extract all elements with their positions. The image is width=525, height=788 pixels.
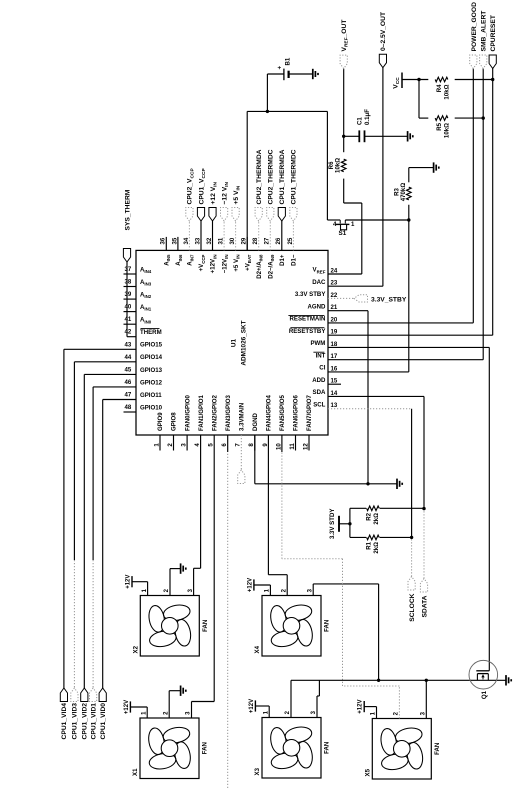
svg-text:10kΩ: 10kΩ: [443, 84, 450, 99]
svg-text:13: 13: [331, 402, 338, 409]
svg-text:R1: R1: [366, 541, 373, 549]
svg-text:SCL: SCL: [313, 401, 325, 408]
svg-text:FAN4/GPIO4: FAN4/GPIO4: [266, 394, 273, 431]
svg-text:22: 22: [331, 292, 338, 299]
svg-text:ADM1026_SKT: ADM1026_SKT: [241, 320, 248, 365]
svg-text:0–2.5V_OUT: 0–2.5V_OUT: [380, 11, 387, 51]
svg-text:INT: INT: [316, 352, 326, 359]
svg-text:10: 10: [275, 443, 282, 450]
svg-text:4: 4: [194, 443, 201, 447]
svg-text:CI: CI: [319, 365, 325, 372]
svg-text:15: 15: [331, 378, 338, 385]
svg-text:D1+: D1+: [279, 254, 286, 266]
svg-text:47: 47: [125, 392, 132, 399]
svg-text:FAN: FAN: [434, 743, 441, 755]
svg-text:FAN7/GPIO7: FAN7/GPIO7: [306, 394, 313, 431]
svg-text:11: 11: [289, 443, 296, 450]
svg-text:SDA: SDA: [313, 389, 326, 396]
svg-text:3.3VMAIN: 3.3VMAIN: [239, 403, 246, 431]
svg-text:SMB_ALERT: SMB_ALERT: [481, 10, 488, 52]
svg-text:R4: R4: [436, 84, 443, 92]
svg-text:GPIO14: GPIO14: [140, 354, 163, 361]
svg-text:POWER_GOOD: POWER_GOOD: [471, 2, 478, 52]
svg-text:27: 27: [264, 237, 271, 244]
svg-text:3.3V_STBY: 3.3V_STBY: [371, 296, 407, 303]
svg-text:30: 30: [229, 237, 236, 244]
svg-text:2kΩ: 2kΩ: [373, 542, 380, 554]
svg-text:CPU1_THERMDA: CPU1_THERMDA: [279, 149, 286, 204]
svg-text:X5: X5: [364, 768, 371, 776]
svg-text:S1: S1: [339, 230, 347, 237]
svg-text:9: 9: [262, 443, 269, 447]
svg-text:+: +: [277, 66, 284, 70]
svg-text:43: 43: [125, 341, 132, 348]
svg-text:GPIO15: GPIO15: [140, 342, 163, 349]
svg-text:X2: X2: [132, 645, 139, 653]
svg-text:FAN: FAN: [324, 620, 331, 632]
svg-text:C1: C1: [357, 117, 364, 125]
svg-text:D1−: D1−: [291, 254, 298, 266]
svg-text:U1: U1: [231, 338, 238, 347]
svg-text:Q1: Q1: [481, 690, 488, 699]
svg-text:2kΩ: 2kΩ: [373, 513, 380, 525]
svg-text:31: 31: [218, 237, 225, 244]
svg-text:+12V: +12V: [125, 575, 131, 589]
svg-text:CPU2_THERMDC: CPU2_THERMDC: [268, 149, 275, 204]
svg-text:THERM: THERM: [140, 329, 162, 336]
svg-text:+12V: +12V: [247, 578, 253, 592]
svg-text:42: 42: [125, 329, 132, 336]
svg-text:+12V: +12V: [124, 700, 130, 714]
svg-text:FAN3/GPIO3: FAN3/GPIO3: [225, 394, 232, 431]
svg-text:FAN2/GPIO2: FAN2/GPIO2: [211, 394, 218, 431]
svg-text:6: 6: [221, 443, 228, 447]
svg-text:39: 39: [125, 291, 132, 298]
svg-text:10kΩ: 10kΩ: [443, 123, 450, 138]
svg-text:FAN5/GPIO5: FAN5/GPIO5: [279, 394, 286, 431]
svg-text:SDATA: SDATA: [421, 595, 428, 617]
svg-text:28: 28: [252, 237, 259, 244]
svg-text:CPU1_VID3: CPU1_VID3: [72, 703, 79, 740]
svg-text:GPIO11: GPIO11: [140, 392, 162, 399]
svg-text:46: 46: [125, 379, 132, 386]
svg-text:CPU1_THERMDC: CPU1_THERMDC: [291, 149, 298, 204]
svg-text:0.1μF: 0.1μF: [364, 109, 371, 125]
svg-text:AGND: AGND: [307, 303, 326, 310]
svg-text:GPIO10: GPIO10: [140, 404, 163, 411]
svg-text:48: 48: [125, 404, 132, 411]
svg-text:8: 8: [248, 443, 255, 447]
svg-text:GPIO13: GPIO13: [140, 367, 163, 374]
svg-text:FAN6/GPIO6: FAN6/GPIO6: [293, 394, 300, 431]
svg-text:CPU2_THERMDA: CPU2_THERMDA: [256, 149, 263, 204]
svg-text:GPIO9: GPIO9: [157, 412, 164, 431]
svg-text:RESETMAIN: RESETMAIN: [290, 316, 326, 323]
svg-text:DAC: DAC: [312, 279, 326, 286]
svg-text:29: 29: [241, 237, 248, 244]
svg-text:40: 40: [125, 304, 132, 311]
svg-text:41: 41: [125, 316, 132, 323]
svg-text:FAN: FAN: [202, 742, 209, 754]
svg-text:R5: R5: [436, 122, 443, 130]
svg-text:34: 34: [183, 237, 190, 244]
svg-text:33: 33: [194, 237, 201, 244]
svg-text:CPURESET: CPURESET: [490, 14, 497, 51]
svg-text:5: 5: [208, 443, 215, 447]
svg-text:+12V: +12V: [358, 700, 364, 714]
svg-text:35: 35: [171, 237, 178, 244]
svg-text:26: 26: [275, 237, 282, 244]
svg-text:2: 2: [167, 443, 174, 447]
svg-text:36: 36: [160, 237, 167, 244]
svg-text:37: 37: [125, 266, 132, 273]
svg-text:CPU1_VID4: CPU1_VID4: [61, 703, 68, 740]
svg-text:25: 25: [287, 237, 294, 244]
svg-text:RESETSTBY: RESETSTBY: [289, 328, 326, 335]
svg-text:X4: X4: [254, 645, 261, 653]
svg-text:R2: R2: [366, 512, 373, 520]
svg-text:7: 7: [235, 443, 242, 447]
svg-text:12: 12: [302, 443, 309, 450]
svg-text:CPU1_VID1: CPU1_VID1: [90, 703, 97, 740]
svg-text:SYS_THERM: SYS_THERM: [124, 189, 131, 230]
svg-text:FAN: FAN: [202, 620, 209, 632]
svg-text:FAN0/GPIO0: FAN0/GPIO0: [184, 394, 191, 431]
svg-text:3: 3: [181, 443, 188, 447]
svg-text:470kΩ: 470kΩ: [400, 183, 407, 202]
svg-text:GPIO8: GPIO8: [171, 412, 178, 431]
svg-text:ADD: ADD: [312, 377, 326, 384]
svg-text:B1: B1: [285, 57, 292, 65]
svg-text:X3: X3: [254, 767, 261, 775]
svg-text:45: 45: [125, 366, 132, 373]
svg-text:3.3V STBY: 3.3V STBY: [295, 291, 325, 298]
svg-text:+12V: +12V: [249, 699, 255, 713]
svg-text:X1: X1: [132, 768, 139, 776]
svg-text:1: 1: [153, 443, 160, 447]
svg-text:38: 38: [125, 279, 132, 286]
svg-text:PWM: PWM: [310, 340, 325, 347]
svg-text:3.3V STDY: 3.3V STDY: [329, 509, 336, 539]
svg-text:GPIO12: GPIO12: [140, 379, 163, 386]
svg-text:44: 44: [125, 354, 132, 361]
svg-text:SCLOCK: SCLOCK: [409, 593, 416, 621]
svg-text:CPU1_VID0: CPU1_VID0: [100, 703, 107, 740]
svg-text:DGND: DGND: [252, 412, 259, 431]
svg-text:32: 32: [206, 237, 213, 244]
svg-text:10kΩ: 10kΩ: [334, 158, 341, 173]
svg-text:FAN: FAN: [324, 742, 331, 754]
svg-text:CPU1_VID2: CPU1_VID2: [82, 703, 89, 740]
svg-text:FAN1/GPIO1: FAN1/GPIO1: [198, 394, 205, 431]
